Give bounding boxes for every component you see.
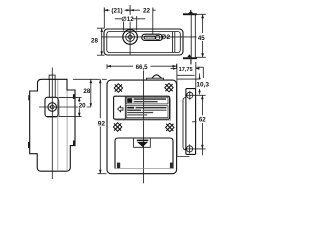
latch bump: [152, 75, 162, 78]
bracket bottom stem: [190, 59, 191, 64]
svg-text:28: 28: [83, 88, 90, 95]
rail top hole: [185, 91, 196, 100]
rail bottom hole: [185, 144, 196, 153]
knob shaft side lines: [48, 79, 50, 97]
knob square top extension: [59, 96, 82, 98]
nameplate divider vertical: [124, 96, 126, 119]
cover bottom line: [115, 168, 173, 170]
panel clip bump upper-right: [73, 94, 75, 99]
mounting bracket spine: [191, 14, 195, 58]
knob square bottom extension: [59, 116, 82, 118]
nameplate shadow: [116, 99, 171, 121]
top view body inner: [107, 32, 181, 53]
panel clip bump left: [28, 142, 30, 148]
bracket top stem: [190, 10, 191, 14]
slot outer: [142, 34, 163, 40]
top view inner verticals: [172, 32, 174, 53]
knob housing square: [45, 97, 58, 116]
screw top-right: [165, 83, 173, 91]
knob circle ring: [126, 33, 135, 42]
cover foot right: [170, 163, 173, 169]
nameplate info box: [126, 106, 168, 118]
svg-text:62: 62: [199, 117, 206, 124]
knob circle side inner: [50, 105, 54, 109]
knob center diamond: [128, 34, 133, 39]
bracket bottom barb: [187, 54, 192, 57]
cover notch: [134, 138, 151, 147]
screw bottom-right: [166, 123, 174, 131]
svg-text:22: 22: [143, 7, 151, 14]
dim 92: [97, 79, 107, 173]
bracket top barb: [188, 12, 194, 14]
svg-text:66,5: 66,5: [136, 64, 149, 71]
extension lines top view: [103, 8, 105, 29]
nameplate text smudge rows: [127, 98, 166, 115]
svg-text:45: 45: [198, 35, 205, 42]
left side view body: [30, 79, 75, 171]
rail centerline tick: [192, 121, 197, 123]
nameplate arrow: [118, 106, 123, 112]
panel clip bump right: [73, 140, 75, 145]
dim 20 side view: [78, 97, 87, 116]
top extension line shared: [73, 78, 100, 80]
svg-text:∅2: ∅2: [161, 33, 171, 41]
svg-text:20: 20: [79, 103, 86, 110]
knob circle side: [48, 103, 57, 112]
dim 17,75: [171, 67, 200, 73]
svg-text:10,3: 10,3: [196, 82, 209, 89]
nameplate outer: [114, 96, 170, 119]
rail main body: [186, 89, 196, 155]
knob housing shadow: [47, 101, 59, 118]
svg-text:28: 28: [91, 37, 98, 44]
cover triangle mark: [137, 140, 149, 142]
cover foot left: [117, 163, 120, 169]
svg-text:92: 92: [98, 120, 106, 127]
side view inner gray line 2: [66, 91, 68, 172]
dim 10,3: [177, 74, 209, 95]
panel clip bump upper-left: [28, 95, 30, 100]
front top shoulder: [147, 78, 164, 80]
slot inner: [144, 36, 155, 39]
svg-text:(21): (21): [111, 8, 122, 15]
svg-text:∅12: ∅12: [121, 16, 134, 23]
screw bottom-left: [113, 123, 121, 131]
extension vertical from device right: [177, 64, 190, 157]
top view body outer: [104, 29, 183, 55]
knob circle outer: [123, 30, 138, 45]
extension vertical rail right: [195, 62, 197, 89]
front centerline: [143, 71, 145, 184]
screw top-left: [114, 84, 122, 92]
dim diameter 12: [115, 15, 145, 31]
dim 62: [196, 95, 207, 155]
dim 28 side view: [83, 79, 92, 107]
bracket top bar: [183, 13, 197, 15]
top view horizontal centerline: [101, 36, 199, 38]
nameplate caution box: [126, 97, 168, 104]
terminal cover: [115, 138, 173, 169]
left side view tab: [49, 75, 55, 79]
side view vertical centerline: [51, 68, 53, 180]
front view body: [107, 80, 177, 174]
dim 45: [196, 14, 207, 57]
side view inner gray line 1: [57, 80, 59, 171]
svg-text:17,75: 17,75: [179, 67, 193, 73]
bracket bottom bar: [183, 57, 197, 59]
knob horizontal centerline: [39, 106, 91, 108]
dim 28 top view: [91, 28, 105, 55]
dim 66,5: [107, 63, 177, 71]
top view vertical centerline through knob: [129, 5, 131, 55]
dim (21): [104, 6, 155, 15]
rail left flange: [183, 98, 186, 150]
